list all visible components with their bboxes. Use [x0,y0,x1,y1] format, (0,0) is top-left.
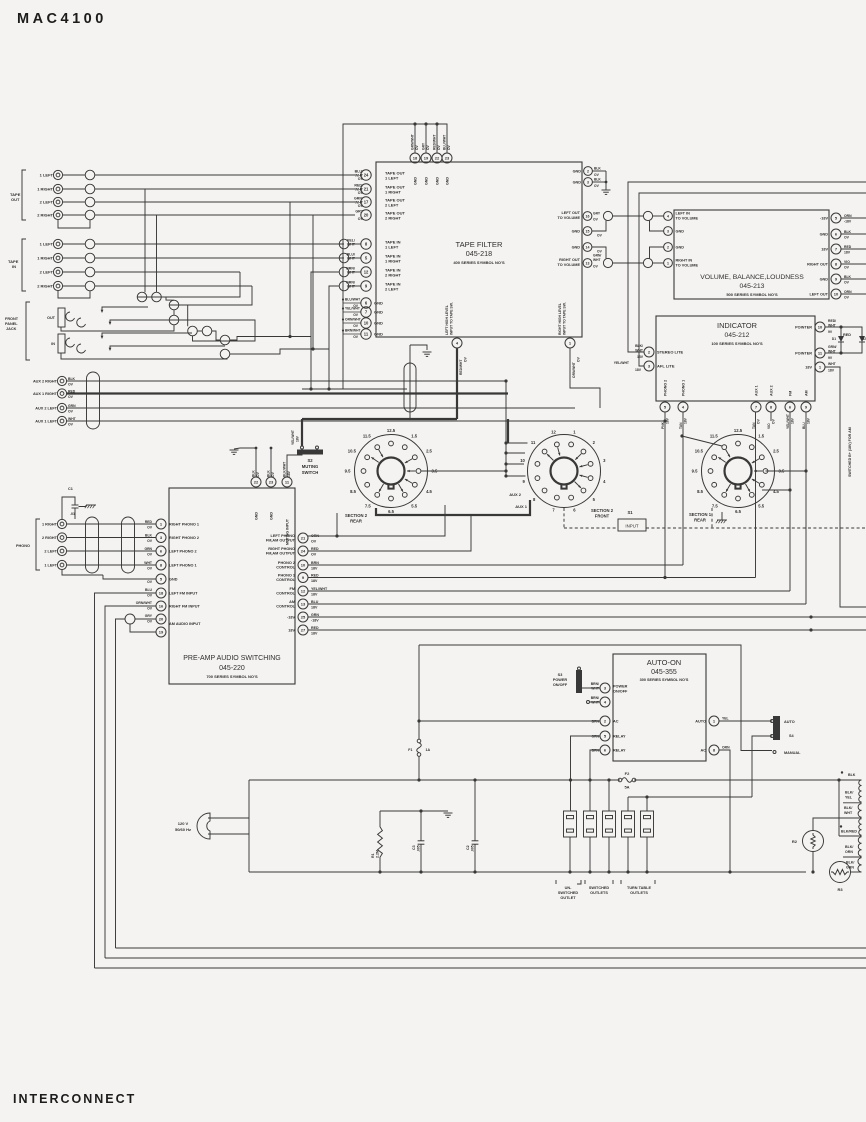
svg-text:11.5: 11.5 [363,433,372,438]
pin 6 TAPE FILTER GND [342,298,344,300]
svg-text:R2: R2 [792,839,798,844]
outlet turntable 2 [641,811,654,837]
wire pin21 left phono output [308,505,445,536]
svg-text:SECTION 2: SECTION 2 [345,513,368,518]
svg-text:13: 13 [301,601,306,606]
svg-text:GND: GND [573,181,582,185]
svg-text:PHONO 2: PHONO 2 [664,380,668,396]
svg-text:18V: 18V [821,248,828,252]
svg-text:BLK: BLK [594,167,601,171]
wire indicator pin9 drop [805,412,807,604]
svg-text:BLK: BLK [267,470,271,477]
svg-text:ORN: ORN [845,850,853,854]
pin 1 VOLUME RIGHT IN [664,259,673,268]
svg-text:18V: 18V [807,417,811,424]
wire indicator pin8 drop [770,412,772,421]
wire maze h4 [212,331,220,340]
svg-text:2 LEFT: 2 LEFT [385,287,399,292]
svg-text:RIGHT PHONO 1: RIGHT PHONO 1 [169,523,199,527]
svg-text:2 RIGHT: 2 RIGHT [42,536,58,540]
wire indicator pin6 drop [789,412,791,591]
wire phono ground link [62,570,103,575]
wire front panel in sleeve [61,353,227,359]
svg-text:OV: OV [757,418,761,424]
wire pin13 to volume connectors [613,262,644,264]
svg-text:1 LEFT: 1 LEFT [385,176,399,181]
svg-text:18V: 18V [828,369,835,373]
svg-text:MUTING: MUTING [302,464,319,469]
svg-text:16: 16 [586,214,590,218]
svg-text:INPUT TO TAPE SW.: INPUT TO TAPE SW. [563,302,567,335]
svg-text:UN-: UN- [565,886,572,890]
svg-text:MANUAL: MANUAL [784,751,801,755]
wire phono 2 RIGHT row [67,537,156,539]
svg-text:GND: GND [374,301,383,306]
module INDICATOR 045-212 block [656,316,815,401]
svg-text:D1: D1 [832,337,836,341]
svg-text:4.5: 4.5 [773,489,779,494]
svg-text:MAC4100: MAC4100 [17,11,107,27]
wire tape in 2 left feed [329,286,339,389]
svg-text:BLK/WHT: BLK/WHT [283,462,287,477]
svg-text:OV: OV [311,540,317,544]
wire tape filter top feed bus [343,124,447,389]
wire front panel out tip [102,307,148,311]
svg-text:18V: 18V [288,629,295,633]
svg-text:PRE-AMP AUDIO SWITCHING: PRE-AMP AUDIO SWITCHING [183,655,281,662]
wire r2 bottom [812,852,814,873]
wire front panel in tip [102,333,192,337]
svg-text:OV: OV [464,356,468,362]
svg-text:AUTO-ON: AUTO-ON [647,658,681,667]
pin 1 PRE-AMP RIGHT PHONO 1 [156,519,166,529]
label switched outlets [584,880,586,884]
wire maze h3 [197,330,202,332]
wire maze long v from tape out 2 left [289,202,291,337]
svg-text:RED: RED [311,626,319,630]
svg-text:9V: 9V [828,356,833,360]
svg-text:2 RIGHT: 2 RIGHT [385,216,401,221]
svg-text:GND: GND [374,332,383,337]
wire thick tape filter pin4 drop [456,348,458,419]
svg-text:16: 16 [159,603,164,608]
cable shield phono 1 [86,517,99,573]
wire phono 1 LEFT row [67,564,156,566]
svg-text:WHT: WHT [828,362,837,366]
svg-text:4: 4 [667,214,669,218]
svg-text:RED/WHT: RED/WHT [459,360,463,375]
svg-text:OV: OV [147,620,153,624]
svg-text:17: 17 [364,199,369,204]
svg-text:GND: GND [820,278,829,282]
svg-text:AUX 2 RIGHT: AUX 2 RIGHT [33,380,58,384]
svg-text:045-213: 045-213 [740,283,765,290]
svg-text:BLU/WHT: BLU/WHT [345,298,360,302]
svg-text:AC: AC [701,749,707,753]
svg-text:OV: OV [147,607,153,611]
svg-text:VIO: VIO [767,423,771,429]
ground rotary3 [717,519,727,521]
svg-text:OV: OV [415,144,419,150]
wire maze circle joins [161,297,174,300]
svg-text:500 SERIES SYMBOL NO'S: 500 SERIES SYMBOL NO'S [726,292,778,297]
outlet switched 1 [584,811,597,837]
wire maze h1 [147,296,152,298]
svg-text:RIGHT PHONO 2: RIGHT PHONO 2 [169,536,199,540]
svg-text:REAR: REAR [694,518,706,523]
svg-text:ORN/WHT: ORN/WHT [572,362,576,378]
svg-text:GND: GND [169,578,178,582]
wire rotary1 contact 3.5 link [421,470,506,472]
svg-text:CONTROL: CONTROL [276,566,295,570]
wire ac pin8 to neutral rail [719,750,730,872]
svg-text:AUX 1 LEFT: AUX 1 LEFT [35,420,57,424]
svg-text:AM: AM [805,390,809,396]
wire r2 top to tap [813,818,862,831]
svg-text:PHONO: PHONO [16,544,30,548]
wire maze v2 [156,215,158,292]
svg-text:OV: OV [353,313,359,317]
svg-text:PNK: PNK [661,421,665,429]
svg-text:OV: OV [68,383,74,387]
svg-text:10: 10 [818,324,823,329]
svg-text:OV: OV [844,281,850,285]
svg-text:RED: RED [311,573,319,577]
svg-text:BLU: BLU [802,422,806,429]
connector circle left in to volume [643,211,652,220]
svg-text:BRN: BRN [592,720,600,724]
wire pin16 to volume connectors [613,215,644,217]
svg-text:BLU: BLU [145,588,153,592]
svg-text:OV: OV [447,144,451,150]
svg-text:3: 3 [587,180,589,184]
rotary switch SECTION 2 FRONT [528,435,601,508]
module TAPE FILTER 045-218 block [376,162,582,337]
module AUTO-ON 045-355 block [613,654,706,761]
svg-text:OV: OV [256,471,260,477]
svg-text:22: 22 [435,155,440,160]
ground c1 hatched [86,504,96,506]
svg-text:YEL/WHT: YEL/WHT [786,414,790,429]
svg-text:AUX 2 LEFT: AUX 2 LEFT [35,407,57,411]
wire afl lite feed from right edge [639,193,866,366]
svg-text:9.5: 9.5 [692,469,698,474]
svg-text:OV: OV [772,418,776,424]
svg-text:SWITCHED: SWITCHED [589,886,610,890]
wire S4 bottom contact to turntable feed [752,736,772,797]
wire rotary2 left stubs [506,442,528,444]
svg-text:1 LEFT: 1 LEFT [44,564,57,568]
wire rotary3 contact 4.5 link [762,489,790,491]
svg-text:OUTLET: OUTLET [560,896,576,900]
cable shield phono 2 [122,517,135,573]
svg-text:YEL/WHT: YEL/WHT [345,307,360,311]
wire aux 2 right run [67,380,506,382]
svg-text:22: 22 [254,479,259,484]
transformer tap blk/wht [813,817,862,819]
svg-text:BLK: BLK [848,773,856,777]
diode D1 [840,327,842,336]
svg-text:6.5: 6.5 [388,509,394,514]
wire maze h6 [230,349,329,354]
svg-text:RED: RED [843,333,851,337]
svg-text:YEL/WHT: YEL/WHT [614,361,630,365]
svg-text:18V: 18V [287,470,291,477]
svg-text:1 RIGHT: 1 RIGHT [385,190,401,195]
wire thick rotary1 bottom link [376,500,530,515]
wire neutral rail [249,871,806,873]
svg-text:12: 12 [551,429,556,434]
wire indicator pin7 drop [755,412,757,577]
svg-text:12: 12 [301,588,306,593]
wire aux 2 left run [67,407,575,409]
wire thick muting to rotary bus [302,418,457,420]
svg-text:WHT: WHT [635,349,644,353]
svg-text:12: 12 [364,269,369,274]
svg-text:OV: OV [353,324,359,328]
ground power filter [444,812,453,814]
svg-text:23: 23 [445,155,450,160]
wire muting input to switch S2 [287,455,302,478]
svg-text:10.5: 10.5 [348,448,357,453]
svg-text:18: 18 [413,155,418,160]
svg-text:BLK: BLK [844,275,852,279]
svg-text:BLU: BLU [311,600,319,604]
wire hot rail [249,779,620,781]
svg-text:OV: OV [844,266,850,270]
svg-text:RIGHT OUT: RIGHT OUT [807,263,829,267]
svg-text:TO VOLUME: TO VOLUME [676,217,699,221]
connector circle left out [603,211,612,220]
wire maze to filter pins [169,320,255,341]
svg-text:SECTION 2: SECTION 2 [591,508,614,513]
svg-text:24: 24 [301,548,306,553]
transformer tap blk/orn [843,856,862,858]
wire pin10 phono2 control [308,564,683,566]
svg-text:SECTION 1: SECTION 1 [689,512,712,517]
switch S4 auto/manual [773,716,780,740]
pin 7 TAPE FILTER GND [342,307,344,309]
svg-text:10: 10 [520,458,525,463]
svg-text:BLK: BLK [145,533,153,537]
svg-text:AUX 1: AUX 1 [755,385,759,396]
svg-text:GND: GND [572,246,581,250]
svg-text:045-212: 045-212 [725,332,750,339]
svg-text:GND: GND [572,230,581,234]
svg-text:CONTROL: CONTROL [276,578,295,582]
svg-text:10: 10 [364,320,369,325]
wire tape out 2 RIGHT row [63,214,86,216]
pin 11 TAPE FILTER GND [342,329,344,331]
svg-text:LEFT PHONO 1: LEFT PHONO 1 [169,564,197,568]
svg-text:RIGHT PHONO: RIGHT PHONO [268,547,295,551]
cable shield mid [404,363,416,412]
svg-text:2 RIGHT: 2 RIGHT [37,284,53,289]
svg-text:F2: F2 [625,771,630,776]
diode D2 [841,327,862,336]
svg-text:STEREO LITE: STEREO LITE [657,350,684,355]
wire front panel in ring [110,346,225,349]
pin 10 TAPE FILTER GND [342,318,344,320]
svg-text:VOLUME, BALANCE,LOUDNESS: VOLUME, BALANCE,LOUDNESS [700,274,804,281]
outlet turntable 1 [622,811,635,837]
svg-text:OV: OV [594,173,600,177]
svg-text:FM: FM [290,587,295,591]
svg-text:TO VOLUME: TO VOLUME [676,264,699,268]
svg-text:GND: GND [436,177,440,185]
wire am input down [116,619,126,948]
wire tape in 1 RIGHT row [63,257,86,259]
transformer bottom blk/grn [851,871,862,873]
wire aux 1 right run thick [67,392,508,394]
svg-text:IN: IN [12,264,16,269]
svg-text:2.5: 2.5 [773,448,779,453]
svg-text:25: 25 [301,614,306,619]
svg-text:BRN/: BRN/ [591,696,599,700]
svg-text:21: 21 [364,186,369,191]
connector circle right in to volume [643,258,652,267]
svg-text:AFL LITE: AFL LITE [657,364,675,369]
svg-text:18V: 18V [844,251,851,255]
label turntable outlets [620,880,622,884]
svg-text:WHT: WHT [844,811,853,815]
svg-text:R3: R3 [837,887,843,892]
svg-text:AUTO: AUTO [695,720,706,724]
wire r1 c2 top rail [380,810,448,812]
svg-text:RED/: RED/ [828,319,836,323]
wire tape out 1 LEFT row [63,174,86,176]
svg-text:300 SERIES SYMBOL NO'S: 300 SERIES SYMBOL NO'S [640,678,689,682]
svg-text:GND: GND [446,177,450,185]
svg-text:OV: OV [147,594,153,598]
svg-text:ON/OFF: ON/OFF [553,683,568,687]
svg-text:18V: 18V [684,417,688,424]
svg-text:YEL: YEL [722,717,729,721]
wire maze h2 [179,305,188,326]
svg-text:11.5: 11.5 [710,433,719,438]
wire left fm input down [95,593,156,968]
svg-text:OV: OV [597,234,603,238]
svg-text:27: 27 [301,627,306,632]
svg-text:-18V: -18V [287,616,295,620]
svg-text:PHONO 1: PHONO 1 [278,573,295,577]
svg-text:1 LEFT: 1 LEFT [40,173,54,178]
svg-text:400 SERIES SYMBOL NO'S: 400 SERIES SYMBOL NO'S [453,260,505,265]
svg-text:2 LEFT: 2 LEFT [40,200,54,205]
svg-text:GND: GND [676,246,685,250]
svg-text:GND: GND [255,512,259,520]
svg-text:1 RIGHT: 1 RIGHT [37,187,53,192]
label un-switched outlet [555,880,557,884]
svg-text:OV: OV [147,526,153,530]
svg-text:LEFT OUT: LEFT OUT [809,293,828,297]
svg-text:OV: OV [593,218,599,222]
svg-text:9.5: 9.5 [345,469,351,474]
svg-text:23: 23 [269,479,274,484]
wire hot rail after fuse [634,779,839,781]
switch S2 muting [297,450,323,455]
svg-text:19: 19 [159,629,164,634]
svg-text:10: 10 [301,562,306,567]
svg-text:BRN: BRN [311,561,319,565]
wire plug neutral [208,834,249,872]
svg-text:18V: 18V [637,355,644,359]
module PRE-AMP AUDIO SWITCHING 045-220 block [169,488,295,684]
svg-text:OV: OV [844,236,850,240]
wire tape out 2 LEFT row [63,201,86,203]
svg-text:20: 20 [159,616,164,621]
wire maze v1 [144,189,146,292]
svg-text:LEFT FM INPUT: LEFT FM INPUT [169,592,198,596]
svg-text:2: 2 [587,169,589,173]
svg-text:YEL: YEL [845,796,853,800]
svg-text:15: 15 [586,229,590,233]
svg-text:REAR: REAR [350,519,362,524]
wire stereo lite feed from right edge [628,182,866,352]
svg-text:11: 11 [531,440,536,445]
svg-text:OV: OV [147,567,153,571]
svg-text:POWER: POWER [553,678,568,682]
svg-text:PHONO 2: PHONO 2 [278,561,295,565]
cable shield aux [87,372,100,429]
wire indicator pin4 drop [682,412,684,565]
svg-text:OUT: OUT [47,316,56,320]
rotary switch SECTION 2 REAR [355,435,428,508]
svg-text:2: 2 [667,245,669,249]
svg-text:OV: OV [593,265,599,269]
svg-text:BRN/WHT: BRN/WHT [345,329,361,333]
svg-text:C2: C2 [466,845,470,850]
svg-text:045-218: 045-218 [466,249,492,258]
svg-text:2 LEFT: 2 LEFT [385,203,399,208]
svg-text:ORN: ORN [591,735,599,739]
wire tape in 2 rows to maze [95,271,240,273]
wire maze v3 [173,310,175,315]
wire rotary3 contact 11.5 link [682,436,722,446]
svg-text:CONTROL: CONTROL [276,605,295,609]
wire pin9 phono1 control run [308,577,756,579]
svg-text:-18V: -18V [820,217,828,221]
svg-text:WHT: WHT [68,417,77,421]
svg-text:VIO: VIO [844,260,850,264]
svg-text:TAPE FILTER: TAPE FILTER [456,240,503,249]
wire relay pin5 [571,736,600,811]
svg-text:GRN: GRN [311,613,319,617]
pin 8 PRE-AMP LEFT PHONO 1 [156,560,166,570]
outlet un-switched [564,811,577,837]
svg-text:1.5: 1.5 [758,433,764,438]
ground muting [230,449,239,451]
wire blk to blk/red tap [838,780,840,836]
svg-text:BLK/: BLK/ [635,344,643,348]
wire bus wrap bottom middle [105,957,866,959]
ground mid [423,351,432,353]
svg-text:4.5: 4.5 [426,489,432,494]
svg-text:S1: S1 [627,510,633,515]
wire tape in 2 right feed [311,272,339,389]
rotary switch SECTION 1 REAR [702,435,775,508]
svg-text:3: 3 [667,229,669,233]
svg-text:1 RIGHT: 1 RIGHT [37,256,53,261]
svg-text:GND: GND [414,177,418,185]
svg-text:INPUT TO TAPE SW.: INPUT TO TAPE SW. [450,302,454,335]
connector circles tape in pins [339,239,349,249]
svg-text:YEL/WHT: YEL/WHT [291,430,295,445]
svg-text:SWITCHED: SWITCHED [558,891,579,895]
svg-text:OV: OV [844,296,850,300]
wire tape out 1 RIGHT row [63,188,86,190]
svg-text:ORN: ORN [844,214,852,218]
